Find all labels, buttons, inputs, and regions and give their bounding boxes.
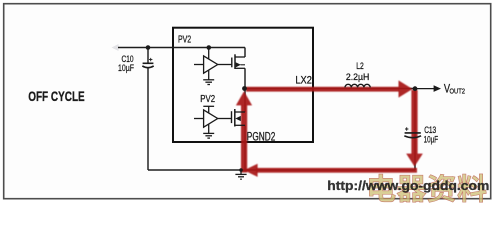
- node LX2 junction dot: [242, 86, 247, 91]
- wire PV2 rail: [118, 47, 245, 49]
- arrowhead VOUT2 output: [434, 85, 441, 92]
- wire rail to high-side drain: [244, 48, 246, 58]
- red arrowhead left at ground: [244, 164, 258, 177]
- node VOUT2 junction dot: [413, 86, 418, 91]
- ground (return node): [239, 168, 243, 172]
- faint arrow remnant at rail input: [112, 44, 119, 51]
- ground (high-side driver): [203, 80, 214, 85]
- wire C10 top lead: [147, 48, 149, 63]
- transistor Q2 (low-side MOSFET): [232, 109, 246, 127]
- svg-text:10µF: 10µF: [424, 133, 439, 144]
- red arrowhead up at LX2: [236, 91, 252, 105]
- watermark chinese characters: [369, 174, 486, 202]
- red arrowhead down above return corner: [406, 154, 423, 167]
- op-amp driver U1 (high-side gate driver): [194, 48, 232, 80]
- body arrow Q1: [236, 62, 241, 67]
- red segment VOUT2 down: [411, 90, 417, 154]
- border frame: [4, 4, 491, 199]
- red current path: [236, 80, 423, 176]
- IC outline box: [173, 28, 313, 142]
- wire LX2 to L2 red segment: [246, 87, 399, 92]
- inductor L2: [345, 84, 370, 87]
- svg-text:L2: L2: [356, 60, 364, 71]
- svg-text:LX2: LX2: [295, 75, 312, 87]
- capacitor C13: [404, 127, 421, 137]
- svg-text:PV2: PV2: [178, 35, 191, 46]
- wire high-side source to LX2: [244, 68, 246, 88]
- wire low-side source down to return: [244, 125, 246, 170]
- svg-text:PGND2: PGND2: [247, 129, 276, 143]
- red segment up through low-side FET: [241, 105, 247, 173]
- wire low-side drain LX2 down: [244, 89, 246, 113]
- svg-text:2.2µH: 2.2µH: [346, 71, 370, 82]
- transistor Q1 (high-side MOSFET): [232, 54, 245, 69]
- body arrow Q2: [235, 116, 241, 121]
- node junction dot C10/rail: [146, 45, 151, 50]
- wire bottom run to ground node: [148, 169, 241, 171]
- svg-text:PV2: PV2: [200, 94, 215, 105]
- wire LX2 to VOUT2 node (under red): [245, 88, 415, 90]
- red return segment bottom: [256, 168, 417, 173]
- svg-text:OUT2: OUT2: [450, 87, 466, 96]
- svg-text:http://www.go-gddq.com: http://www.go-gddq.com: [327, 178, 489, 193]
- wire C10 bottom lead down: [147, 68, 149, 170]
- op-amp driver U2 (low-side gate driver): [194, 106, 231, 133]
- svg-text:10µF: 10µF: [118, 62, 134, 73]
- ground (low-side driver): [203, 133, 214, 138]
- red arrowhead right at VOUT2: [399, 80, 413, 97]
- svg-text:OFF CYCLE: OFF CYCLE: [28, 89, 85, 104]
- wire ground node to return (under red): [241, 169, 415, 171]
- node junction dot rail/driver: [207, 45, 212, 50]
- wire VOUT2 node down through C13 (under red): [414, 89, 416, 171]
- wire VOUT2 output arrow: [417, 88, 434, 90]
- capacitor C10: [142, 58, 153, 68]
